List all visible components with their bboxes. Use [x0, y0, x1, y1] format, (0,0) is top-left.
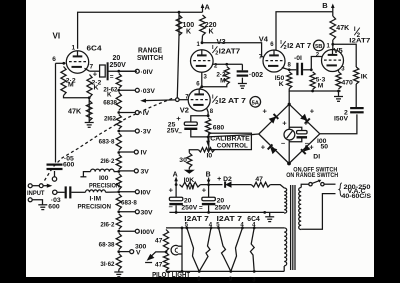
junction 100ohm node — [117, 170, 120, 173]
wire bridge top to meter — [288, 104, 290, 129]
meter M1 — [284, 129, 295, 140]
junction bridge bottom — [287, 103, 291, 166]
wire V3 grid — [213, 63, 242, 65]
wire V5 cathode — [338, 70, 340, 72]
pin9 label a — [197, 277, 201, 283]
resistor 30 — [187, 153, 192, 168]
junction top rail / 100K — [178, 11, 181, 14]
black left border bar — [0, 0, 26, 283]
wire 47 junction to chassis — [151, 252, 166, 257]
label tap ·03V — [141, 88, 156, 95]
plus UR — [310, 107, 315, 116]
svg-text:20: 20 — [217, 198, 225, 205]
svg-text:K: K — [94, 85, 99, 92]
node A arrow — [201, 4, 205, 13]
junction .03V — [117, 89, 120, 92]
diode bridge lower-left — [268, 144, 278, 154]
svg-text:DI: DI — [313, 154, 320, 161]
resistor 47 upper (pilot) — [163, 230, 168, 252]
wire node to bridge left vertex — [208, 134, 259, 137]
resistor 47 (B+) — [251, 182, 270, 187]
svg-text:VI: VI — [53, 32, 61, 41]
dashed mechanical link — [45, 98, 175, 181]
svg-text:+: + — [310, 107, 315, 116]
svg-text:+: + — [304, 119, 309, 128]
junction V3 plate — [201, 41, 204, 44]
label CALIBRATE — [210, 135, 250, 142]
wire 2.2M/2.2K bottoms — [64, 96, 90, 98]
junction 470 bus — [337, 90, 340, 93]
capacitor 2uF 150V — [320, 84, 364, 134]
box CALIBRATE CONTROL — [209, 133, 252, 149]
label V2 — [180, 106, 189, 115]
label INPUT — [27, 190, 45, 197]
wire 1.1M to chain — [106, 191, 119, 193]
ground chain bottom — [114, 270, 123, 277]
junction 3V — [117, 130, 120, 133]
heater element V2a — [219, 228, 243, 272]
svg-text:·0IV: ·0IV — [141, 69, 154, 76]
terminal .03 contact — [53, 190, 57, 194]
junction h3c — [253, 270, 256, 273]
wire 47 lower to bus — [165, 270, 167, 273]
svg-text:+: + — [309, 143, 314, 152]
resistor 220K — [200, 15, 206, 36]
tube V5 12AT7b — [322, 50, 344, 72]
svg-text:=: = — [110, 73, 114, 80]
transformer heater winding — [284, 228, 287, 266]
diode bridge upper-right — [300, 114, 310, 124]
junction 1V — [117, 151, 120, 154]
label 47 B+ — [255, 176, 263, 183]
svg-text:+: + — [202, 186, 207, 195]
label PRECISION b — [78, 204, 112, 211]
wire 100 left tail — [80, 172, 90, 177]
terminal tap 6 — [134, 169, 138, 173]
potentiometer 10 (calibrate) — [199, 148, 215, 152]
label 680 — [213, 125, 225, 132]
range wiper pivot — [176, 98, 180, 102]
junction h4 — [241, 227, 244, 230]
label tap IV — [141, 150, 148, 157]
pilot lamp — [171, 245, 182, 254]
input switch arm — [43, 184, 52, 188]
resistor 2162 (chain) — [116, 115, 121, 130]
pin 7 label V1 — [90, 64, 94, 71]
svg-text:IW: IW — [186, 184, 195, 191]
svg-text:–: – — [281, 139, 285, 148]
junction V2 cathode — [207, 114, 210, 117]
wire tap 4 — [119, 130, 136, 132]
resistor 680 — [206, 118, 211, 135]
svg-text:B: B — [322, 1, 328, 10]
svg-text:600: 600 — [63, 161, 75, 168]
wire 100K to range wiper pivot — [177, 12, 179, 97]
black bottom border bar — [26, 277, 374, 283]
svg-text:K: K — [107, 92, 112, 99]
transformer core — [291, 185, 295, 270]
plus label V1 cap — [93, 70, 98, 79]
input terminal gnd — [28, 198, 32, 202]
capacitor .01 coupling — [289, 63, 311, 76]
pin4 label hB — [240, 223, 244, 229]
svg-text:D2: D2 — [223, 176, 232, 183]
label V3 — [217, 37, 226, 46]
heater element 6C4 — [250, 228, 254, 272]
svg-text:I2AT7: I2AT7 — [219, 49, 241, 56]
junction grid/2.2M — [62, 62, 65, 65]
label 6C4 — [87, 44, 103, 53]
minus meter cap — [305, 139, 309, 148]
minus cap A — [169, 202, 173, 211]
label 216.2b — [100, 221, 115, 228]
svg-text:ON RANGE SWITCH: ON RANGE SWITCH — [286, 172, 338, 179]
label 683.8b — [121, 200, 137, 207]
switch on/off — [309, 180, 324, 186]
junction gnd bus — [263, 211, 266, 214]
resistor 47K (V1) — [86, 101, 92, 122]
svg-text:K: K — [279, 81, 284, 88]
svg-text:M: M — [318, 83, 324, 90]
svg-text:6: 6 — [52, 56, 56, 63]
wire V2 plate riser — [200, 87, 202, 90]
svg-text:B: B — [206, 172, 211, 179]
pin7 label V4 — [259, 55, 263, 61]
pin6 label V2 — [196, 82, 200, 88]
label tap ·3V — [141, 129, 152, 136]
svg-text:683·8: 683·8 — [121, 200, 137, 207]
wire V1 grid pin6 — [56, 62, 66, 64]
svg-text:IV: IV — [141, 150, 148, 157]
chassis arrow ground — [145, 254, 154, 263]
svg-text:30: 30 — [179, 157, 187, 164]
junction V5 plate — [331, 43, 334, 46]
label A (top) — [205, 3, 211, 12]
wire HT winding top — [283, 187, 285, 189]
svg-text:20: 20 — [113, 55, 121, 62]
svg-text:-0I: -0I — [294, 55, 302, 62]
wire heater winding bottom — [283, 266, 285, 271]
terminal tap 10 — [130, 250, 134, 254]
resistor 470 — [336, 72, 341, 89]
svg-text:A: A — [205, 3, 211, 12]
heater element V1a — [187, 228, 211, 272]
range wiper arrow — [140, 99, 175, 103]
resistor 683.8b (chain) — [116, 194, 121, 210]
svg-text:I00: I00 — [99, 175, 109, 182]
wire switch to line — [324, 183, 335, 185]
wire V5 plate to 1K — [333, 44, 356, 67]
label 200-250 — [344, 184, 371, 191]
junction h9a — [198, 270, 201, 273]
label 68.38 — [99, 241, 115, 248]
junction 5.3M bus — [311, 90, 314, 93]
pin1 label V5 — [327, 44, 331, 50]
junction V5 grid node — [310, 68, 313, 71]
plus UL — [263, 107, 268, 116]
svg-text:6C4: 6C4 — [87, 44, 103, 53]
svg-text:I2AT7: I2AT7 — [349, 37, 370, 44]
transformer primary winding — [299, 188, 302, 230]
wire tap 3 — [119, 112, 136, 114]
svg-text:–: – — [305, 139, 309, 148]
wire top rail from V1 plate to node A — [78, 12, 203, 49]
label V4 — [259, 35, 269, 44]
terminal tap 4 — [135, 129, 139, 133]
label tap ·IV — [141, 110, 150, 117]
tube V2 12AT7b — [188, 89, 210, 111]
label 100K — [183, 22, 195, 36]
svg-text:68·38: 68·38 — [99, 241, 115, 248]
diode D2 — [225, 181, 231, 187]
pin 6 label V1 — [52, 56, 56, 63]
junction cathode bottom — [88, 96, 91, 99]
junction pilot top — [181, 227, 184, 230]
label ON RANGE SWITCH — [286, 172, 338, 179]
plus LL — [261, 143, 266, 152]
label 2.2M V3 — [216, 72, 226, 85]
wire V2 cathode — [207, 109, 208, 116]
pin4 label hC — [252, 223, 256, 229]
svg-text:·3V: ·3V — [141, 129, 152, 136]
pin3 label V5 — [341, 67, 345, 73]
svg-text:+: + — [261, 143, 266, 152]
svg-text:I·IM: I·IM — [90, 196, 102, 203]
wire tap 9 — [119, 230, 136, 232]
wire V4 cathode — [282, 68, 289, 70]
svg-text:I0K: I0K — [184, 177, 195, 184]
label 150K — [275, 75, 285, 88]
label plus 25uF — [176, 114, 181, 123]
junction 100V — [117, 230, 120, 233]
wire tap 5 — [119, 151, 135, 153]
pin3 label c — [252, 278, 256, 283]
label minus 25uF — [178, 129, 182, 136]
label half 12AT7 V5 — [349, 26, 370, 45]
wire bus to bridge top — [288, 91, 290, 104]
terminal tap 3 — [135, 111, 139, 115]
label half 12AT7 V4 — [280, 40, 311, 51]
label 10 pot — [207, 153, 213, 160]
ground cathode bus — [334, 91, 343, 101]
tube V1 6C4 — [66, 51, 88, 73]
label 12AT7 heater a — [184, 216, 209, 223]
label 6C4 heater — [247, 216, 260, 223]
wire V4 plate riser — [276, 12, 333, 51]
resistor 31.62 (chain) — [116, 254, 121, 270]
minus mark 20uF — [110, 73, 114, 80]
junction cap A bus — [175, 211, 178, 214]
ground bus HT — [169, 211, 284, 213]
wire pot left — [189, 150, 198, 153]
wire tap 6 — [119, 170, 135, 172]
svg-text:V: V — [136, 250, 141, 257]
svg-text:20: 20 — [184, 198, 192, 205]
wire HT winding bottom — [283, 211, 285, 214]
label B rail — [206, 172, 211, 179]
ground .002 — [238, 84, 247, 89]
junction B rail — [207, 183, 210, 186]
capacitor meter 100/50 — [289, 127, 307, 142]
svg-text:47K: 47K — [68, 107, 82, 116]
label 47 upper — [155, 238, 163, 245]
svg-text:47K: 47K — [336, 25, 349, 32]
wire primary bottom to line — [301, 194, 335, 230]
resistor 1.1M precision — [86, 190, 106, 192]
pin1 label V3 — [197, 42, 201, 48]
label 216.2a — [100, 158, 115, 165]
svg-text:SWITCH: SWITCH — [137, 55, 163, 62]
label V5 — [334, 46, 343, 55]
label 40-60 — [342, 193, 372, 200]
svg-text:I0: I0 — [207, 153, 213, 160]
svg-text:40-60C/S: 40-60C/S — [342, 193, 372, 200]
wire V1 grid down to input cap — [55, 63, 57, 162]
label 683.8a — [99, 138, 115, 145]
label 30 — [179, 157, 187, 164]
label 6838 — [103, 100, 117, 107]
svg-text:K: K — [209, 29, 214, 36]
input terminal hot — [28, 184, 32, 188]
resistor 216.2b (chain) — [116, 214, 121, 229]
circled 5B — [314, 40, 325, 51]
terminal tap 5 — [134, 150, 138, 154]
node B arrow — [331, 4, 335, 12]
capacitor 20uF 250V A — [169, 185, 183, 213]
label tap I0V — [141, 190, 152, 197]
label half 12AT7 V2 — [212, 95, 246, 106]
capacitor .002 — [237, 64, 249, 83]
label 31.62 — [100, 261, 115, 268]
label PRECISION a — [89, 183, 120, 190]
svg-text:I2 AT 7: I2 AT 7 — [287, 43, 311, 50]
wire 220K to V3 plate — [201, 36, 204, 43]
label .002 — [249, 72, 263, 79]
svg-text:·IV: ·IV — [141, 110, 150, 117]
resistor 100 precision — [91, 169, 114, 171]
label .05 600 — [63, 156, 75, 169]
svg-text:M: M — [68, 82, 74, 89]
tube V3 12AT7a — [191, 50, 214, 73]
pin8 label V4 — [288, 63, 292, 69]
label tap 3V — [141, 169, 150, 176]
label 1K — [361, 74, 368, 81]
label 25 25V — [167, 121, 180, 134]
pilot lamp branch — [181, 228, 183, 272]
bus V4/V5 cathode returns — [289, 89, 341, 92]
svg-text:I2 AT 7: I2 AT 7 — [219, 98, 246, 105]
label PILOT LIGHT — [152, 272, 191, 279]
svg-text:2I6·2: 2I6·2 — [100, 158, 115, 165]
tube V4 12AT7a — [263, 50, 285, 72]
pin5 label hA — [185, 223, 189, 229]
terminal tap 9 — [135, 229, 139, 233]
junction 680 bottom — [207, 136, 210, 139]
label tap I00V — [141, 229, 155, 236]
junction h5 — [253, 227, 256, 230]
label B (top) — [322, 1, 328, 10]
resistor 100K — [176, 15, 182, 36]
label 2162 — [104, 115, 117, 122]
svg-text:CALIBRATE: CALIBRATE — [210, 135, 250, 142]
svg-text:+: + — [169, 186, 174, 195]
capacitor 25uF 25V — [184, 116, 208, 137]
resistor 21.62K (chain) — [116, 74, 121, 89]
junction 300V — [117, 250, 120, 253]
svg-text:+: + — [282, 119, 287, 128]
svg-text:47: 47 — [155, 262, 163, 269]
junction cap B bus — [207, 211, 210, 214]
svg-text:A: A — [173, 172, 178, 179]
junction h1 — [186, 227, 189, 230]
wire V5 grid — [311, 57, 321, 70]
node B rail arrow — [207, 178, 211, 185]
junction 30V — [117, 210, 120, 213]
svg-text:PILOT LIGHT: PILOT LIGHT — [152, 272, 191, 279]
svg-text:47: 47 — [155, 238, 163, 245]
terminal .05 contact — [52, 177, 56, 181]
wire tap 8 — [119, 211, 136, 213]
svg-text:I: I — [354, 26, 356, 33]
svg-text:V5: V5 — [334, 46, 343, 55]
capacitor .05 600V (AC input) — [47, 164, 63, 177]
label ON/OFF SWITCH — [293, 166, 337, 173]
capacitor 20uF 250V B — [202, 185, 216, 213]
resistor 683.8 (chain) — [116, 133, 121, 151]
label VAC — [348, 188, 366, 195]
transformer secondary HT winding — [284, 188, 287, 213]
svg-text:250V: 250V — [110, 62, 127, 69]
wire V2 grid — [179, 99, 188, 101]
label 220K — [205, 22, 217, 36]
svg-text:I2AT 7: I2AT 7 — [217, 216, 243, 223]
wire D2 to 47 — [230, 184, 251, 186]
capacitor 20uF 250V (series electrolytic) — [90, 62, 138, 80]
svg-text:K: K — [186, 29, 191, 36]
svg-text:3I·62: 3I·62 — [100, 261, 115, 268]
svg-text:470: 470 — [342, 80, 354, 87]
svg-text:I50V: I50V — [334, 116, 348, 123]
diode bridge upper-left — [269, 114, 279, 124]
label half 12AT7 V3 — [212, 45, 240, 56]
svg-text:2I62: 2I62 — [104, 115, 117, 122]
svg-text:INPUT: INPUT — [27, 190, 45, 197]
pin2 label V5 — [316, 53, 320, 59]
svg-text:V3: V3 — [217, 37, 226, 46]
junction .1V — [117, 111, 120, 114]
circled 5A — [250, 97, 261, 108]
wire meter to bridge bottom — [288, 140, 290, 164]
label D1 — [313, 154, 320, 161]
svg-text:I2AT 7: I2AT 7 — [184, 216, 209, 223]
svg-text:V4: V4 — [259, 35, 269, 44]
junction h3 — [217, 227, 220, 230]
svg-text:+: + — [263, 107, 268, 116]
label 5.3M — [316, 77, 326, 90]
label +D2 — [217, 176, 232, 183]
minus meter — [281, 139, 285, 148]
resistor 68.38 (chain) — [116, 233, 121, 249]
label tap 30V — [141, 210, 154, 217]
junction h9b — [229, 270, 232, 273]
wire V1 cathode to node — [85, 68, 90, 71]
terminal tap 2 — [135, 88, 139, 92]
pin2 label V3 — [214, 64, 218, 70]
brace AC input — [339, 183, 342, 197]
junction 47s — [165, 251, 168, 254]
label 47K V1 — [68, 107, 82, 116]
label 47K B — [336, 25, 349, 32]
